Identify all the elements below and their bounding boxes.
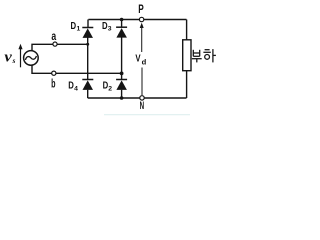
wire: left column D4 to bottom rail [87, 90, 89, 98]
wire: right column D2 to bottom rail [121, 90, 123, 98]
wire: load top stub [186, 20, 188, 40]
AC source circle [24, 51, 39, 66]
svg-text:4: 4 [74, 86, 78, 93]
wire: source bottom to b to right column [32, 65, 122, 73]
sine wave inside source [25, 56, 36, 60]
svg-text:v: v [4, 50, 12, 66]
svg-text:P: P [138, 2, 144, 16]
junction dot top rail / D3 column [120, 18, 124, 22]
svg-text:3: 3 [108, 25, 112, 32]
load resistor box [183, 40, 191, 71]
svg-text:s: s [12, 56, 16, 65]
node P terminal [139, 17, 143, 21]
svg-text:b: b [51, 77, 55, 91]
label 부하 (load) drawn as strokes [192, 49, 216, 62]
wire: left column D1 to D4 [87, 38, 89, 80]
junction dot b-wire / right column [120, 72, 124, 76]
faint scan artifact line bottom [104, 114, 190, 116]
diode D4 [82, 80, 93, 90]
svg-text:2: 2 [108, 86, 112, 93]
wire: left column top stub to D1 [87, 20, 89, 28]
svg-text:d: d [142, 58, 147, 67]
svg-text:a: a [51, 29, 56, 43]
wire: bottom rail N [88, 97, 187, 99]
svg-text:D: D [71, 21, 77, 32]
wire: right column D3 to D2 [121, 37, 123, 79]
Vd arrow up toward P [140, 23, 144, 52]
svg-text:N: N [140, 100, 145, 112]
wire: right column top stub to D3 [121, 20, 123, 28]
diode D1 [82, 28, 93, 38]
junction dot a-wire / left column [86, 43, 89, 46]
junction dot bottom rail / D2 column [120, 96, 124, 100]
diode D3 [116, 27, 127, 37]
diode D2 [116, 80, 127, 90]
node N terminal [140, 96, 144, 100]
wire: load bottom stub [186, 71, 188, 98]
terminal b [52, 71, 56, 75]
wire: Vd lower shaft [141, 68, 143, 96]
svg-text:1: 1 [77, 25, 81, 32]
vs polarity arrow [18, 44, 22, 68]
svg-text:D: D [68, 80, 74, 91]
wire: top rail P [88, 19, 186, 21]
terminal a [53, 42, 57, 46]
wire: source top to a to left column [32, 44, 88, 50]
svg-text:V: V [135, 53, 140, 65]
